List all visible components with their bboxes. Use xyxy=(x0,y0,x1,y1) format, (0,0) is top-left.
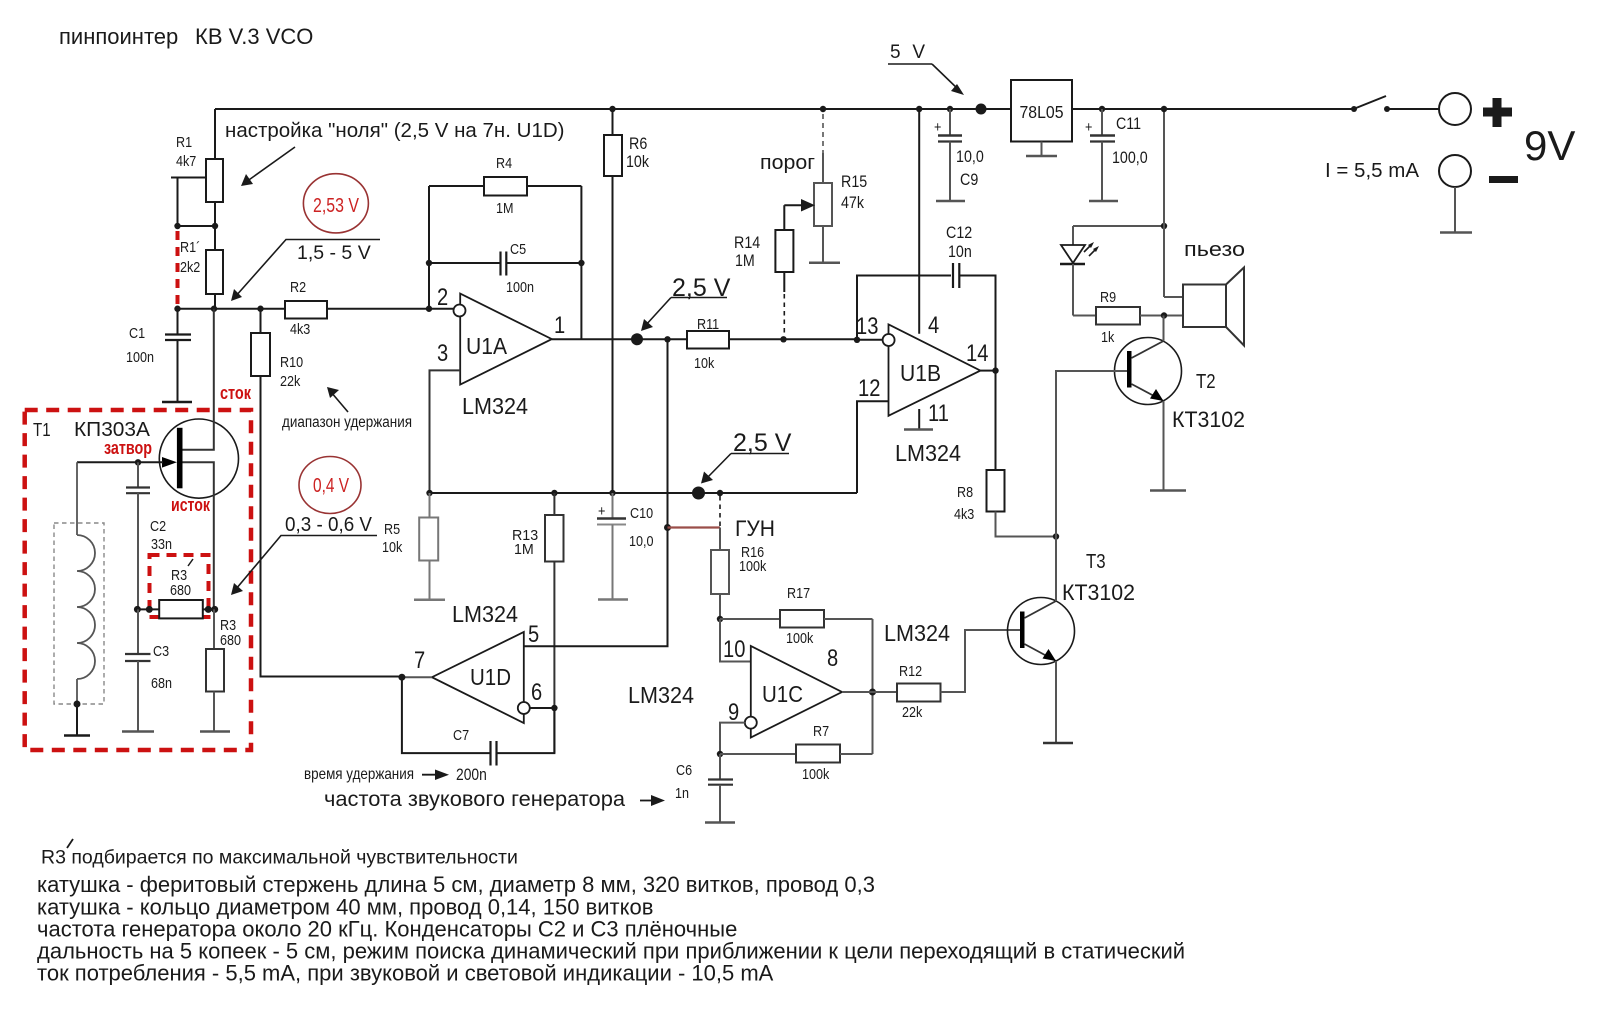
svg-text:КВ V.3 VCO: КВ V.3 VCO xyxy=(195,24,313,49)
resistor R2 4k3 xyxy=(285,279,327,338)
wire U1D output pin7 xyxy=(398,674,432,681)
battery plus sign xyxy=(1483,98,1512,127)
svg-text:2k2: 2k2 xyxy=(180,259,200,276)
svg-text:R8: R8 xyxy=(957,484,973,501)
svg-text:катушка - феритовый стержень д: катушка - феритовый стержень длина 5 см,… xyxy=(37,872,875,897)
resistor R10 22k xyxy=(251,309,303,390)
capacitor C1 100n xyxy=(126,309,191,402)
svg-text:10,0: 10,0 xyxy=(629,533,654,550)
svg-text:настройка "ноля" (2,5 V на 7н.: настройка "ноля" (2,5 V на 7н. U1D) xyxy=(225,119,564,142)
svg-text:R12: R12 xyxy=(899,663,922,680)
label пьезо xyxy=(1184,238,1245,261)
svg-text:8: 8 xyxy=(827,645,838,672)
label сток red xyxy=(220,383,252,403)
svg-text:4k3: 4k3 xyxy=(954,506,974,523)
wire U1C output pin8 xyxy=(842,691,897,693)
svg-text:1k: 1k xyxy=(1101,329,1115,346)
red dashed selection line R1' xyxy=(176,231,180,305)
svg-text:1M: 1M xyxy=(496,200,514,217)
label порог xyxy=(760,152,815,174)
svg-text:время удержания: время удержания xyxy=(304,766,414,783)
svg-text:1n: 1n xyxy=(675,785,689,802)
wire U1A output xyxy=(552,336,687,342)
label время удержания with arrow and 200n xyxy=(304,766,487,784)
svg-text:R5: R5 xyxy=(384,521,400,538)
svg-text:C7: C7 xyxy=(453,727,469,744)
wire U1B pin11 to ground xyxy=(918,409,920,429)
svg-text:10k: 10k xyxy=(382,539,403,556)
resistor R9 1k xyxy=(1073,264,1183,346)
svg-text:5: 5 xyxy=(528,621,539,648)
battery - terminal xyxy=(1439,155,1471,187)
wire 2.5V mid rail xyxy=(426,490,857,496)
note R3 selection xyxy=(41,839,518,869)
capacitor C10 10,0 electrolytic xyxy=(597,493,654,600)
svg-text:C5: C5 xyxy=(510,241,526,258)
op-amp U1C xyxy=(723,636,842,738)
svg-text:680: 680 xyxy=(170,582,191,599)
battery 9V label xyxy=(1524,122,1575,169)
ground R15 xyxy=(809,261,840,264)
svg-text:10: 10 xyxy=(723,636,745,663)
svg-text:LM324: LM324 xyxy=(895,440,961,466)
svg-text:Т2: Т2 xyxy=(1196,371,1216,393)
LED VD1 xyxy=(1060,242,1099,264)
svg-text:1,5 - 5 V: 1,5 - 5 V xyxy=(297,242,371,264)
resistor R4 1M feedback xyxy=(429,155,581,217)
ground T2 xyxy=(1150,489,1186,492)
label КТ3102 T2 xyxy=(1172,407,1245,432)
node 5V with arrow and label xyxy=(888,42,987,115)
svg-text:C12: C12 xyxy=(946,223,972,242)
label T1 xyxy=(33,420,51,440)
svg-text:R10: R10 xyxy=(280,354,303,371)
wire R4 right leg xyxy=(578,186,584,339)
potentiometer R1 4k7 xyxy=(176,134,223,202)
transistor T3 КТ3102 xyxy=(1008,598,1075,665)
svg-text:4k3: 4k3 xyxy=(290,321,310,338)
svg-text:C3: C3 xyxy=(153,643,169,660)
svg-text:C10: C10 xyxy=(630,505,653,522)
svg-text:2,53 V: 2,53 V xyxy=(313,195,360,217)
label I = 5,5 mA xyxy=(1325,159,1419,182)
ground C9 xyxy=(936,200,965,203)
svg-text:10n: 10n xyxy=(948,242,972,261)
capacitor C11 100,0 electrolytic xyxy=(1085,106,1148,201)
wire T2 emitter xyxy=(1163,401,1165,491)
svg-text:10k: 10k xyxy=(694,355,715,372)
svg-text:R15: R15 xyxy=(841,172,867,191)
piezo speaker xyxy=(1161,106,1244,346)
svg-text:U1A: U1A xyxy=(466,333,508,359)
svg-text:частота звукового генератора: частота звукового генератора xyxy=(324,787,625,811)
svg-text:R1´: R1´ xyxy=(180,239,200,256)
svg-text:11: 11 xyxy=(928,400,949,427)
notes block xyxy=(37,872,1185,986)
resistor R13 1M xyxy=(512,493,564,753)
label LM324 U1C right xyxy=(884,620,950,646)
label 1,5 - 5 V with leader arrow xyxy=(231,240,380,302)
svg-text:порог: порог xyxy=(760,152,815,174)
wire U1D pin6 xyxy=(530,705,558,711)
wire T1 gate xyxy=(77,459,163,465)
label ГУН xyxy=(735,516,775,541)
capacitor C9 10,0 electrolytic xyxy=(934,106,984,201)
wire LED branch top xyxy=(1073,223,1167,245)
svg-text:LM324: LM324 xyxy=(452,601,518,627)
svg-text:680: 680 xyxy=(220,632,241,649)
svg-text:C1: C1 xyxy=(129,325,145,342)
node R14 to R11 wire junction xyxy=(780,336,786,342)
wire 5V rail xyxy=(215,108,1439,110)
regulator U2 78L05 xyxy=(1011,80,1072,142)
node R8 T2 base T3 collector xyxy=(1053,533,1059,539)
title xyxy=(59,24,313,49)
transistor T1 JFET xyxy=(159,419,238,498)
wire U1C feedback vertical xyxy=(869,619,876,754)
wire T3 collector xyxy=(1055,537,1057,602)
svg-text:R3 подбирается по максимальной: R3 подбирается по максимальной чувствите… xyxy=(41,847,518,869)
wire R1' to input node xyxy=(214,294,216,309)
ground battery xyxy=(1440,231,1472,234)
label частота звукового генератора with arrow xyxy=(324,787,665,811)
svg-text:сток: сток xyxy=(220,383,252,403)
op-amp U1D xyxy=(414,621,542,723)
svg-text:R6: R6 xyxy=(629,134,647,153)
transistor T2 КТ3102 xyxy=(1115,338,1182,405)
resistor R11 10k xyxy=(687,316,857,372)
svg-text:КТ3102: КТ3102 xyxy=(1062,580,1135,605)
resistor R5 10k xyxy=(382,493,438,600)
wire U1D pin5 to VCO node xyxy=(524,339,668,646)
svg-text:200n: 200n xyxy=(456,766,487,784)
svg-text:4: 4 xyxy=(928,312,939,339)
svg-text:U1D: U1D xyxy=(470,664,511,690)
ground C11 xyxy=(1089,200,1118,203)
svg-text:1: 1 xyxy=(554,312,565,339)
wire T2 base xyxy=(1056,371,1127,537)
svg-text:100n: 100n xyxy=(506,279,534,296)
svg-text:13: 13 xyxy=(856,313,878,340)
svg-text:1M: 1M xyxy=(735,251,755,270)
svg-text:1M: 1M xyxy=(514,541,534,558)
capacitor C6 1n xyxy=(675,754,733,823)
svg-text:7: 7 xyxy=(414,647,425,674)
svg-text:22k: 22k xyxy=(902,704,923,721)
svg-text:3: 3 xyxy=(437,340,448,367)
svg-text:C6: C6 xyxy=(676,762,692,779)
ground T3 xyxy=(1043,742,1073,745)
wire U1B pin13 xyxy=(854,337,883,343)
capacitor C3 68n xyxy=(125,609,172,731)
ground C10 xyxy=(598,598,628,601)
capacitor C5 100n feedback xyxy=(429,241,581,296)
svg-text:затвор: затвор xyxy=(104,438,152,458)
wire T3 emitter xyxy=(1055,661,1057,743)
op-amp U1A xyxy=(437,284,565,385)
label T2 xyxy=(1196,371,1216,393)
node 2,5V mid rail label xyxy=(692,429,792,500)
wire U1A pin3 xyxy=(430,370,461,493)
svg-text:100k: 100k xyxy=(802,766,830,783)
wire U1C pin10 xyxy=(720,619,751,662)
svg-text:22k: 22k xyxy=(280,373,301,390)
ground R3 xyxy=(200,730,230,733)
resistor R8 4k3 xyxy=(954,371,1056,537)
node input row xyxy=(174,306,453,312)
svg-text:пьезо: пьезо xyxy=(1184,238,1245,261)
svg-text:T1: T1 xyxy=(33,420,51,440)
battery minus sign xyxy=(1489,176,1518,183)
svg-text:диапазон удержания: диапазон удержания xyxy=(282,414,412,431)
resistor R14 1M with wiper arrow to R15 xyxy=(734,199,815,336)
svg-text:47k: 47k xyxy=(841,193,864,212)
svg-text:4k7: 4k7 xyxy=(176,153,196,170)
op-amp U1B xyxy=(856,312,988,427)
svg-text:10k: 10k xyxy=(626,152,649,171)
wire T2 collector xyxy=(1163,316,1165,342)
resistor R12 22k xyxy=(897,630,1020,721)
svg-text:Т3: Т3 xyxy=(1086,551,1106,573)
svg-text:LM324: LM324 xyxy=(884,620,950,646)
ground R5 xyxy=(414,598,445,601)
label настройка ноля with arrow xyxy=(225,119,564,186)
svg-text:0,4 V: 0,4 V xyxy=(313,475,350,497)
wire U1B pin4 supply xyxy=(916,106,922,334)
resistor R16 100k xyxy=(711,528,767,623)
resistor R7 100k feedback xyxy=(720,723,873,783)
svg-text:6: 6 xyxy=(531,679,542,706)
label LM324 U1C left xyxy=(628,682,694,708)
ground C1 xyxy=(162,401,192,404)
resistor R6 10k xyxy=(604,106,649,493)
svg-text:R4: R4 xyxy=(496,155,512,172)
ground C3 xyxy=(122,730,154,733)
svg-text:R17: R17 xyxy=(787,585,810,602)
potentiometer R15 47k xyxy=(814,106,867,262)
capacitor C7 200n feedback xyxy=(402,677,555,765)
label T3 xyxy=(1086,551,1106,573)
resistor R3' 680 xyxy=(134,559,218,618)
svg-text:C9: C9 xyxy=(960,170,978,189)
svg-text:14: 14 xyxy=(966,340,988,367)
label затвор red xyxy=(104,438,152,458)
wire T1 drain xyxy=(183,309,214,450)
battery + terminal xyxy=(1439,93,1471,125)
svg-text:R1: R1 xyxy=(176,134,192,151)
svg-text:100n: 100n xyxy=(126,349,154,366)
svg-text:LM324: LM324 xyxy=(462,393,528,419)
label 0,3 - 0,6 V with leader arrow xyxy=(231,514,377,595)
label диапазон удержания with arrow xyxy=(282,387,412,431)
wire U1C pin9 xyxy=(717,723,745,758)
label LM324 U1D xyxy=(452,601,518,627)
red dashed box R3' xyxy=(150,555,209,617)
label LM324 U1B xyxy=(895,440,961,466)
wire U1B output pin14 xyxy=(980,367,998,373)
svg-text:100k: 100k xyxy=(739,558,767,575)
svg-text:C2: C2 xyxy=(150,518,166,535)
resistor R1' 2k2 xyxy=(180,239,223,294)
label LM324 U1A xyxy=(462,393,528,419)
label 2,53 V red circle xyxy=(303,174,368,233)
label исток red xyxy=(171,495,211,515)
switch SA1 xyxy=(1351,96,1390,112)
red dashed box T1 oscillator section xyxy=(25,410,251,750)
wire U1B pin12 to 2.5V rail xyxy=(857,401,889,493)
svg-text:100,0: 100,0 xyxy=(1112,148,1148,167)
svg-text:12: 12 xyxy=(858,375,880,402)
capacitor C2 33n xyxy=(126,462,172,609)
svg-text:R11: R11 xyxy=(697,316,719,333)
wire dashed R16 to 2.5V rail xyxy=(719,496,721,528)
svg-text:5 V: 5 V xyxy=(890,42,925,63)
svg-text:+: + xyxy=(934,119,942,136)
wire rail to R1 xyxy=(214,109,216,159)
resistor R3 680 xyxy=(206,609,241,731)
node 2,5V at U1A output xyxy=(631,274,731,345)
ground 78L05 xyxy=(1026,142,1057,157)
wire R1 to R1' xyxy=(174,202,218,250)
label КТ3102 T3 xyxy=(1062,580,1135,605)
ground coil xyxy=(64,734,90,737)
wire battery minus to ground xyxy=(1454,187,1456,232)
svg-text:R7: R7 xyxy=(813,723,829,740)
wire R10 to U1D output (hold range feedback) xyxy=(261,376,400,677)
resistor R17 100k feedback xyxy=(720,585,873,647)
svg-text:пинпоинтер: пинпоинтер xyxy=(59,24,178,49)
label 0,4 V red circle xyxy=(299,457,361,514)
svg-text:ток потребления - 5,5 mA, при: ток потребления - 5,5 mA, при звуковой и… xyxy=(37,961,774,986)
capacitor C12 10n feedback xyxy=(857,223,996,371)
svg-text:C11: C11 xyxy=(1116,114,1141,133)
svg-text:ГУН: ГУН xyxy=(735,516,775,541)
wiper R1 xyxy=(171,178,205,227)
svg-text:2: 2 xyxy=(437,284,448,311)
label КП303А xyxy=(74,418,150,441)
svg-text:R14: R14 xyxy=(734,233,760,252)
svg-text:78L05: 78L05 xyxy=(1020,102,1064,122)
wire T1 source xyxy=(183,462,214,609)
coil L1 in gray dashed box xyxy=(54,462,104,735)
svg-text:U1C: U1C xyxy=(762,681,803,707)
ground C6 xyxy=(705,821,735,824)
svg-text:33n: 33n xyxy=(151,536,172,553)
svg-text:10,0: 10,0 xyxy=(956,147,984,166)
svg-text:100k: 100k xyxy=(786,630,814,647)
svg-text:U1B: U1B xyxy=(900,360,941,386)
svg-text:0,3 - 0,6 V: 0,3 - 0,6 V xyxy=(285,514,373,536)
svg-text:I = 5,5 mA: I = 5,5 mA xyxy=(1325,159,1419,182)
svg-text:68n: 68n xyxy=(151,675,172,692)
svg-text:+: + xyxy=(1085,119,1093,136)
wire R4 left leg xyxy=(426,186,432,309)
svg-text:LM324: LM324 xyxy=(628,682,694,708)
svg-text:9V: 9V xyxy=(1524,122,1575,169)
svg-text:КТ3102: КТ3102 xyxy=(1172,407,1245,432)
ground U1B pin11 xyxy=(904,428,933,431)
svg-text:R9: R9 xyxy=(1100,289,1116,306)
node VCO tap (maroon link) xyxy=(664,524,720,531)
svg-text:R2: R2 xyxy=(290,279,306,296)
